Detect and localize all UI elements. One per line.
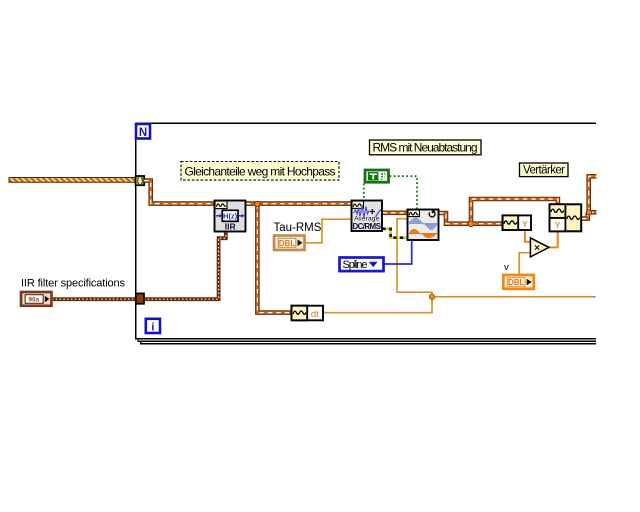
junction on dt wire — [429, 294, 434, 299]
build waveform node U4 — [550, 204, 582, 231]
junction on waveform wire — [255, 201, 261, 207]
svg-text:Tau-RMS: Tau-RMS — [274, 222, 322, 234]
wire: waveform wire IIR output to Average DC/RMS — [246, 201, 352, 206]
svg-text:×: × — [534, 243, 540, 254]
resample waveform node U3 — [408, 209, 439, 240]
wire: dt distribution wire (orange) — [323, 219, 596, 313]
indexing tunnel [] on loop border — [136, 176, 145, 185]
wire: multiply output to build node (orange) — [549, 231, 558, 247]
IIR filter node U1 — [215, 201, 246, 232]
for-loop frame left border — [135, 123, 137, 339]
svg-text:v: v — [504, 262, 509, 273]
wire: boolean dotted wire from TF constant down to DC/RMS — [363, 184, 365, 201]
iteration i box — [146, 319, 160, 334]
svg-text:IIR: IIR — [225, 222, 236, 232]
wire: waveform wire tunnel to IIR filter — [144, 181, 214, 204]
wire: Spline enum to resample (blue) — [384, 241, 412, 265]
svg-text:Y: Y — [522, 219, 528, 229]
v DBL constant — [503, 275, 534, 289]
dt scale node — [292, 306, 324, 321]
svg-text:H(z): H(z) — [223, 212, 238, 221]
svg-text:Gleichanteile weg mit Hochpass: Gleichanteile weg mit Hochpass — [185, 164, 336, 178]
comment label: Vertärker — [520, 163, 569, 177]
junction near right border — [586, 210, 591, 215]
Average DC/RMS node U2 — [352, 201, 383, 232]
IIR filter specifications cluster control — [21, 292, 52, 306]
wire: v constant to multiply (orange) — [519, 253, 530, 274]
multiply node — [530, 238, 549, 257]
wire: boolean dotted wire from TF right to resample top — [390, 176, 418, 208]
wire: waveform wire Average DC/RMS to resample node — [383, 211, 408, 216]
for-loop frame bottom border — [135, 338, 596, 340]
svg-text:RMS mit Neuabtastung: RMS mit Neuabtastung — [373, 141, 478, 155]
svg-text:DBL: DBL — [508, 278, 525, 287]
comment label: Gleichanteile weg mit Hochpass — [181, 162, 339, 181]
wire: IIR filter specifications cluster wire (dotted brown) — [52, 232, 226, 300]
junction on resample output wire — [468, 221, 474, 227]
wire: error cluster wire DC/RMS to resample — [383, 229, 408, 238]
svg-text:N: N — [139, 127, 147, 139]
Spline enum constant — [340, 258, 384, 272]
svg-text:dt: dt — [311, 309, 319, 320]
svg-text:90a: 90a — [28, 297, 39, 304]
Tau-RMS DBL constant — [274, 236, 305, 251]
wire: waveform wire build-node output to loop border tunnels — [582, 176, 597, 218]
svg-text:IIR filter specifications: IIR filter specifications — [21, 278, 126, 290]
loop count N box — [136, 124, 150, 139]
svg-text:DBL: DBL — [279, 239, 296, 248]
svg-text:Spline: Spline — [343, 259, 368, 271]
wire: Y value to multiply (orange) — [525, 230, 531, 241]
for-loop frame shadow line 1 — [138, 339, 596, 342]
svg-text:Vertärker: Vertärker — [523, 165, 565, 177]
wire: Tau-RMS to DC/RMS (orange DBL) — [305, 219, 352, 243]
for-loop frame shadow line 2 — [141, 341, 596, 344]
svg-text:DC/RMS: DC/RMS — [352, 222, 381, 231]
tunnel for specifications wire on loop border — [136, 293, 144, 303]
svg-text:i: i — [151, 322, 154, 334]
TF boolean constant — [365, 170, 389, 182]
wire: waveform branch down to dt node — [257, 204, 291, 313]
small Y component node — [503, 215, 531, 230]
wire: thick array-of-waveforms input wire — [9, 178, 136, 183]
for-loop frame top border — [136, 122, 597, 124]
wire: waveform wire resample output to Y node and up — [439, 199, 558, 224]
svg-text:Y: Y — [555, 220, 561, 230]
comment label: RMS mit Neuabtastung — [370, 140, 482, 155]
